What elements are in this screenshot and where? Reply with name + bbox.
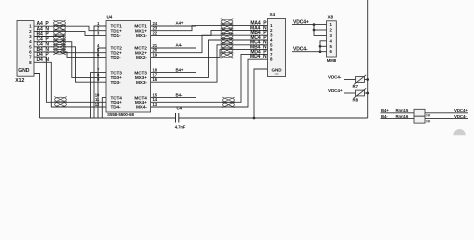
connector X1 (RJ45 jack, pins 1-8 + GND), designator X12 [15,21,34,85]
svg-text:MX4-: MX4- [136,105,147,110]
wire: VDC4- to R7 to chassis line [344,79,356,81]
junction: R7 on chassis line [366,78,369,81]
capacitor C4, 4.7nF (shield coupling) [175,106,186,130]
wire net A4_P: X1 pin 1 to U4 pin 2 [34,26,106,31]
transformer U4, S558-5500-68 [95,14,158,117]
wire net VDC4+: to X8 pins 1,2,3 [292,24,327,26]
junction: R8 on chassis line [366,92,369,95]
svg-text:X12: X12 [15,78,24,84]
wire net D4_P: X1 pin 7 to U4 pin 11 [34,57,106,102]
junction: VDC4- at X8 pin 6 branch [319,50,322,53]
junction: VDC4- at X8 pin 5 branch [319,45,322,48]
svg-text:B4+: B4+ [176,67,184,72]
wire: U4 pin 4 (TCT2) down to shield line [98,48,106,118]
svg-text:B4+: B4+ [381,108,389,113]
junction: X4 GND on shield line [253,117,256,120]
svg-text:MM8: MM8 [327,58,337,63]
svg-text:12: 12 [95,102,100,107]
wire net MC4_N: U4 pin 16 to X4 pin 5 [151,45,268,82]
wire: VDC4+ to R8 to chassis line [344,92,356,94]
wire net B4_P: X1 pin 3 to U4 pin 5 [34,37,106,53]
wire net A4-: U4 pin 21 stub [151,47,196,49]
svg-text:VDC4+: VDC4+ [328,88,343,93]
svg-text:VDC4-: VDC4- [454,114,467,119]
svg-text:X8: X8 [328,15,334,20]
svg-text:MX3-: MX3- [136,80,147,85]
wire net C4_P: X1 pin 4 to U4 pin 8 [34,42,106,78]
svg-text:C4: C4 [176,106,182,111]
wire: X1 GND pin to shield line [34,74,40,119]
twisted-pair symbol TP3 (pair MD4, 2 twists) [222,97,235,108]
connector X4 (RJ45 jack, pins 1-8 + GND) [268,12,286,76]
wire: shield line left of C4 [40,117,176,119]
wire net VDC4-: from Rnn16 [425,118,468,120]
wire net MD4_N: U4 pin 13 to X4 pin 8 [151,59,268,107]
junction: VDC4+ at X8 pin 2 branch [313,29,316,32]
svg-text:MD4_N: MD4_N [250,54,267,60]
wire net B4+: U4 pin 18 stub [151,72,196,74]
wire net VDC4+: from Rnn15 [425,112,468,114]
twisted-pair symbol TP2 (left of X4, 8 twists) [221,19,234,59]
svg-text:MX1-: MX1- [136,33,147,38]
wire net C4_N: X1 pin 5 to U4 pin 9 [34,47,106,82]
svg-text:S558-5500-68: S558-5500-68 [107,112,134,117]
wire: U4 pin 10 (TCT4) down to shield line [102,98,106,118]
svg-text:R8: R8 [353,98,359,103]
svg-text:VDC4+: VDC4+ [293,20,309,26]
wire: chassis net vertical line [367,0,369,118]
svg-text:R7: R7 [353,84,359,89]
svg-text:VDC4+: VDC4+ [454,108,468,113]
wire net B4_N: X1 pin 6 to U4 pin 6 [34,52,106,57]
wire net A4+: U4 pin 24 stub [151,25,196,27]
svg-text:U4: U4 [107,14,113,19]
twisted-pair symbol TP1 (pairs A/B/C left of U4, 7 twists) [53,20,66,55]
varistor R8 (VDC4+ to chassis) [353,88,367,102]
junction: VDC4+ at X8 pin 1 branch [313,23,316,26]
svg-text:GND: GND [272,67,283,72]
svg-text:VDC4-: VDC4- [328,75,342,80]
wire net A4_N: X1 pin 2 to U4 pin 3 [34,31,106,35]
wire net D4_N: X1 pin 8 to U4 pin 12 [34,62,106,107]
wire net MB4_P: U4 pin 20 to X4 pin 3 [151,35,268,53]
wire net MC4_P: U4 pin 17 to X4 pin 4 [151,40,268,77]
wire net B4-: U4 pin 15 stub [151,97,196,99]
svg-text:VDC4-: VDC4- [293,47,308,53]
wire: U4 pin 1 (TCT1) down to shield line [94,26,106,118]
svg-text:A4-: A4- [176,43,183,48]
svg-text:TD2-: TD2- [111,55,122,60]
svg-text:MX2-: MX2- [136,55,147,60]
wire: U4 pin 7 (TCT3) down to shield line [91,73,107,118]
wire: shield line right of C4 [179,117,368,119]
svg-text:TD3-: TD3- [111,80,122,85]
resistor Rnn15 (net B4+ to VDC4+) [396,108,431,117]
wire net B4-: to Rnn16 [381,118,415,120]
svg-text:X4: X4 [270,12,276,17]
svg-text:Rnn15: Rnn15 [396,108,409,113]
resistor Rnn16 (net B4- to VDC4-) [396,114,431,124]
svg-text:B4-: B4- [176,92,183,97]
wire net VDC4-: to X8 pins 4,5,6 [292,51,327,53]
svg-text:GND: GND [18,68,29,74]
svg-text:A4+: A4+ [176,21,184,26]
svg-text:D4_N: D4_N [37,57,50,63]
wire net MB4_N: U4 pin 19 to X4 pin 6 [151,50,268,58]
wire net MA4_P: U4 pin 23 to X4 pin 1 [151,26,268,31]
wire net B4+: to Rnn15 [381,112,415,114]
svg-text:4.7nF: 4.7nF [175,124,186,129]
svg-text:TD1-: TD1- [111,33,122,38]
connector X8 (power header, pins 1-6), footprint MM8 [327,15,337,63]
varistor R7 (VDC4- to chassis) [353,75,367,89]
wire net MD4_P: U4 pin 14 to X4 pin 7 [151,54,268,102]
svg-text:0R: 0R [426,120,431,124]
wire: X4 GND pin to shield line [254,69,268,118]
svg-text:100: 100 [274,72,279,76]
wire net MA4_N: U4 pin 22 to X4 pin 2 [151,30,268,35]
twisted-pair symbol TP1b (pair D left of U4, 2 twists) [54,97,67,108]
svg-text:TD4-: TD4- [111,105,122,110]
svg-text:0R: 0R [426,114,431,118]
